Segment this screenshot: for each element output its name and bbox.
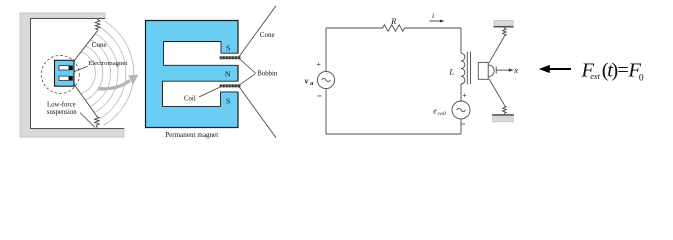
svg-text:ext: ext <box>590 72 600 81</box>
svg-text:Electromagnet: Electromagnet <box>88 60 127 67</box>
svg-text:N: N <box>225 69 231 78</box>
svg-text:+: + <box>316 60 321 69</box>
svg-text:=: = <box>617 59 629 81</box>
svg-text:+: + <box>462 91 467 100</box>
svg-text:Permanent magnet: Permanent magnet <box>165 131 218 139</box>
svg-text:Low-force: Low-force <box>47 101 76 108</box>
svg-text:e: e <box>433 106 437 115</box>
svg-text:v: v <box>305 76 309 85</box>
svg-text:Cone: Cone <box>260 31 275 39</box>
svg-text:a: a <box>310 81 313 87</box>
svg-text:i: i <box>432 11 434 20</box>
svg-text:Cone: Cone <box>92 41 107 49</box>
svg-text:S: S <box>226 97 230 106</box>
svg-text:suspension: suspension <box>47 109 77 116</box>
svg-text:L: L <box>448 67 454 76</box>
svg-text:Coil: Coil <box>184 95 196 102</box>
svg-text:coil: coil <box>438 111 447 117</box>
svg-text:R: R <box>390 17 396 26</box>
svg-text:S: S <box>226 43 230 52</box>
svg-text:x: x <box>513 65 518 75</box>
svg-text:0: 0 <box>639 74 644 84</box>
svg-text:Bobbin: Bobbin <box>257 71 278 78</box>
